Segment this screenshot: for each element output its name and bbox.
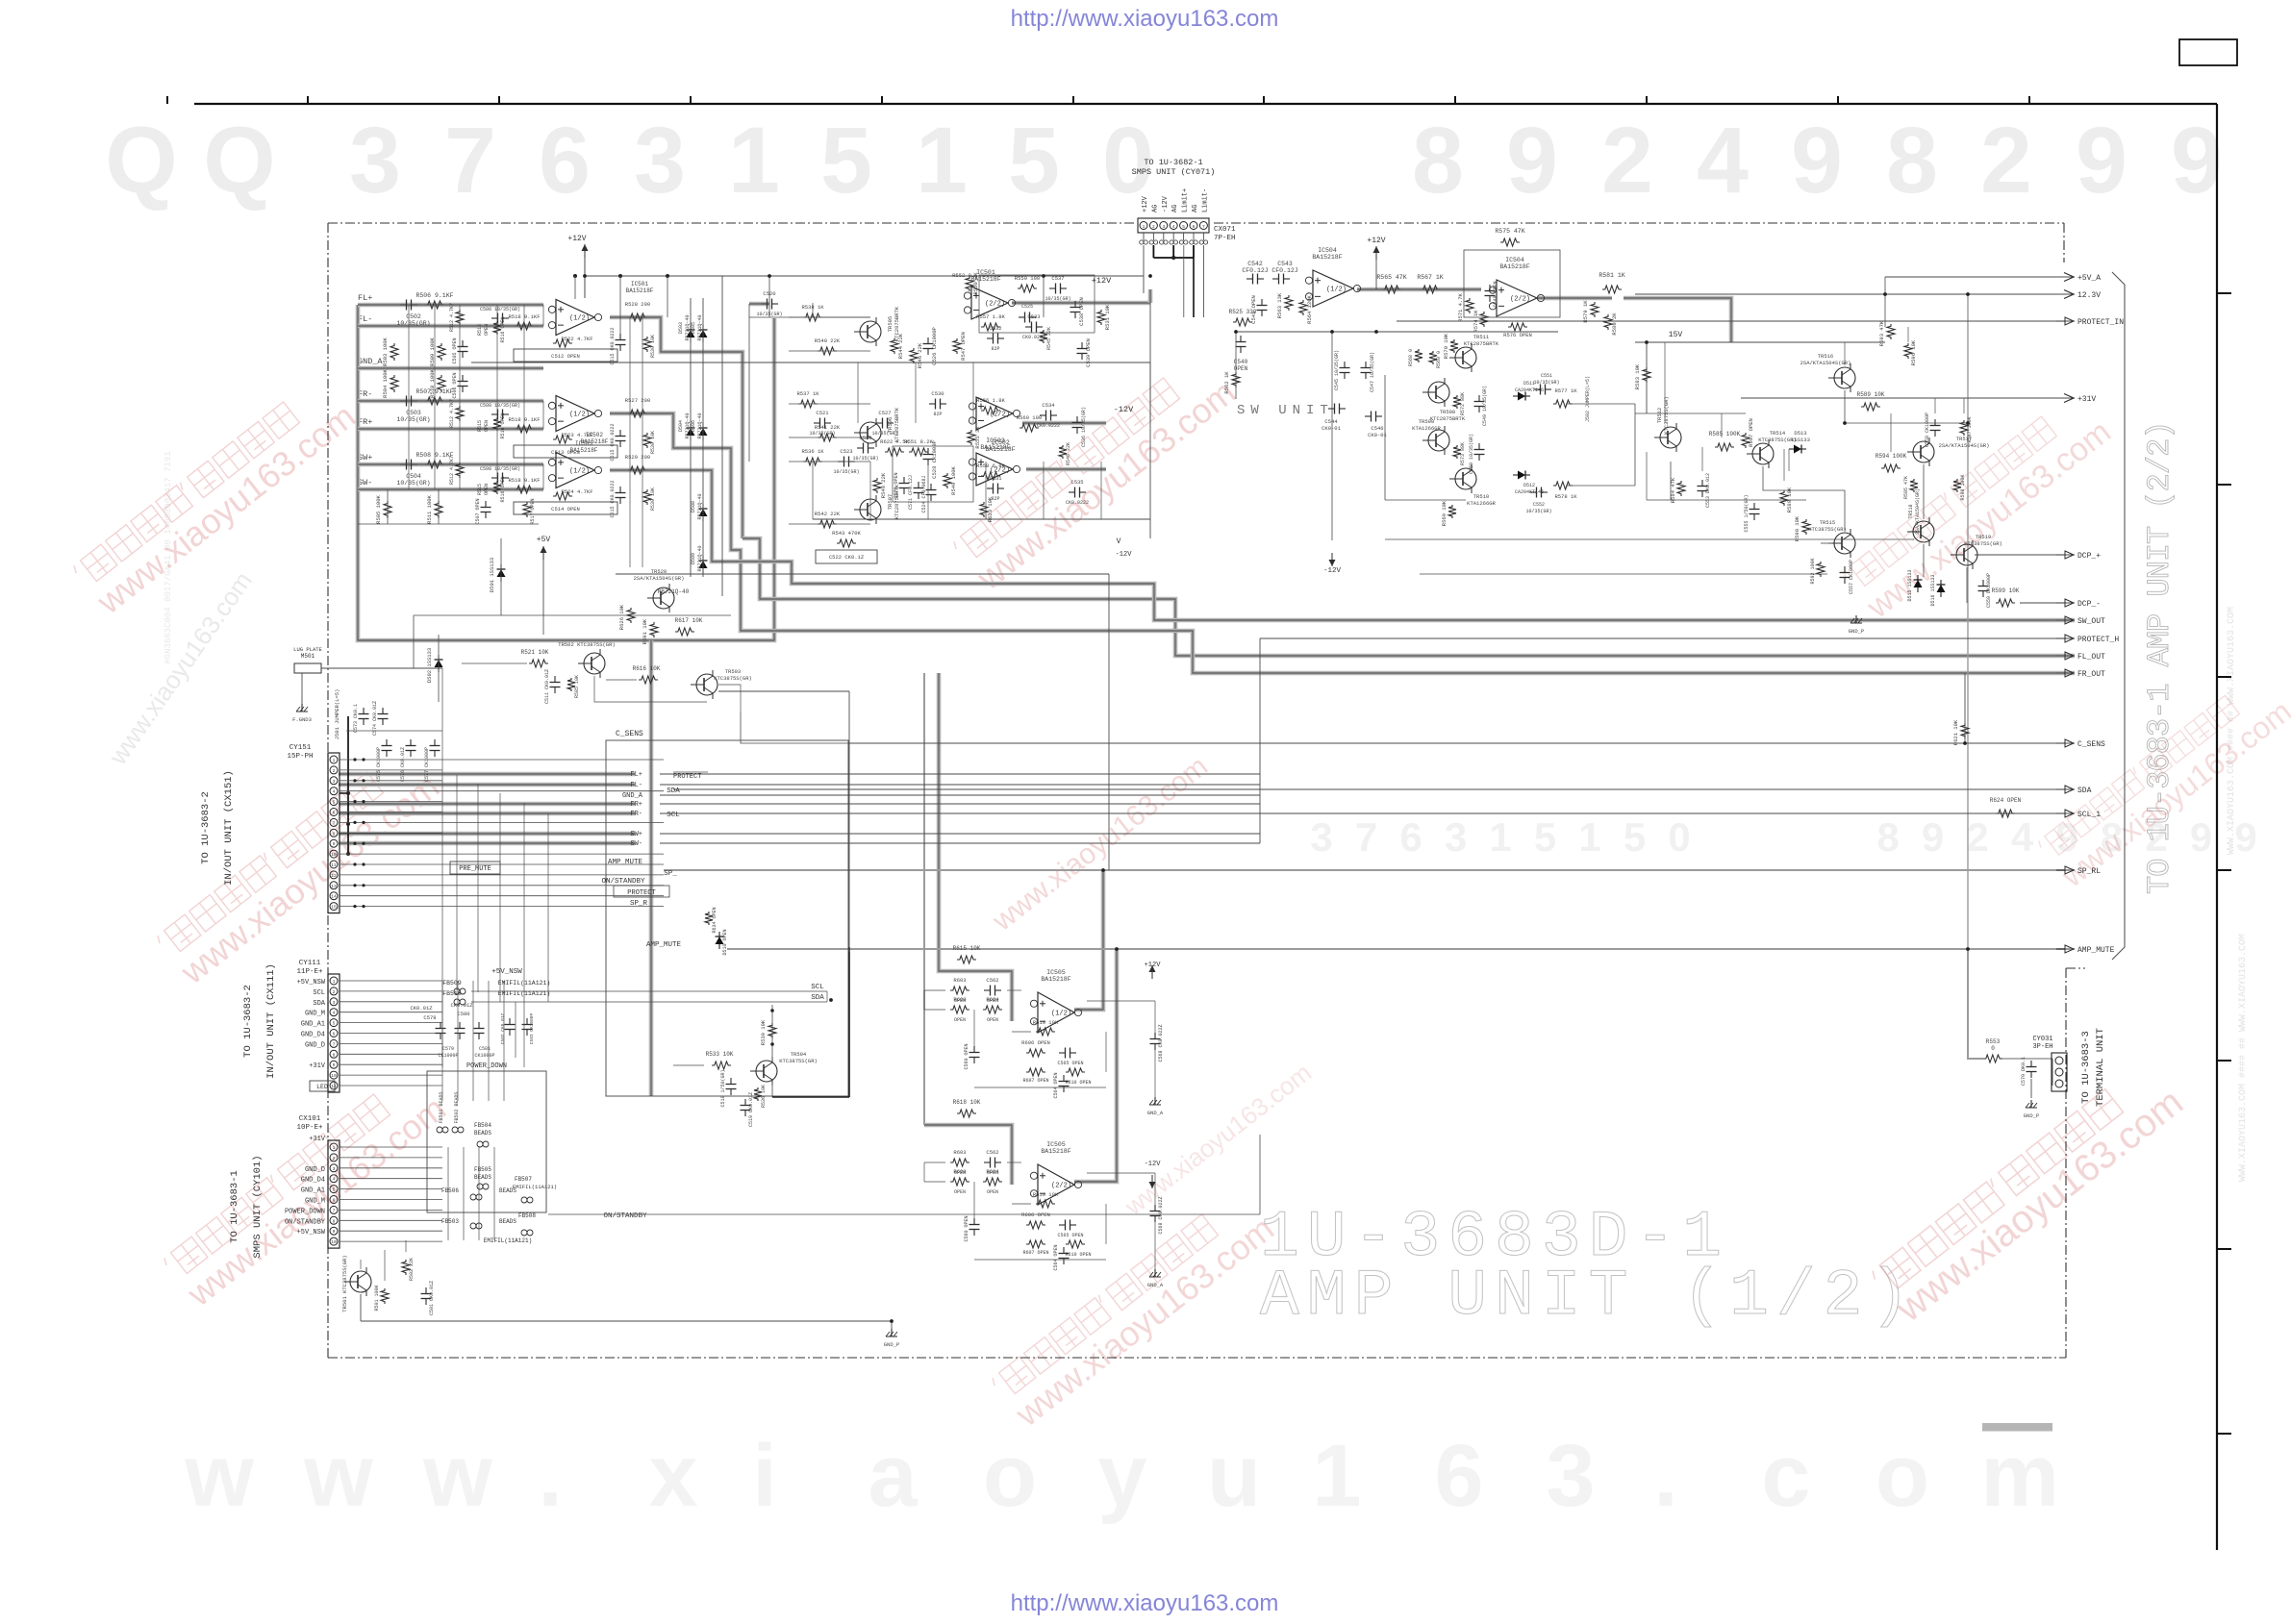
svg-text:TR504: TR504 [791, 1051, 807, 1058]
svg-text:POWER_DOWN: POWER_DOWN [466, 1062, 507, 1070]
svg-text:+5V: +5V [537, 536, 551, 544]
svg-text:C583 CK1000P: C583 CK1000P [529, 1012, 535, 1044]
svg-text:(1/2): (1/2) [569, 315, 590, 323]
svg-text:LED: LED [316, 1084, 328, 1090]
svg-text:11P-E+: 11P-E+ [296, 968, 323, 976]
svg-text:AG: AG [1171, 205, 1179, 212]
svg-text:D505: D505 [691, 322, 696, 334]
svg-text:ON/STANDBY: ON/STANDBY [285, 1218, 326, 1226]
svg-text:5: 5 [333, 1187, 336, 1193]
svg-text:o: o [1876, 1427, 1929, 1525]
svg-text:C545 10/35(GR): C545 10/35(GR) [1334, 350, 1340, 390]
svg-text:BEADS: BEADS [499, 1218, 516, 1225]
svg-text:CK0-01: CK0-01 [1322, 425, 1342, 432]
svg-text:KTC3875S(GR): KTC3875S(GR) [1964, 540, 2002, 547]
svg-text:TERMINAL UNIT: TERMINAL UNIT [2095, 1028, 2106, 1107]
svg-text:GND_P: GND_P [1849, 628, 1865, 635]
svg-text:7: 7 [444, 108, 496, 212]
svg-text:6: 6 [333, 1032, 336, 1037]
svg-text:C579: C579 [442, 1046, 454, 1052]
svg-text:C522 CK0.1Z: C522 CK0.1Z [829, 554, 865, 561]
svg-text:OPEN: OPEN [484, 324, 490, 336]
svg-text:R596 10K: R596 10K [1910, 339, 1917, 365]
svg-text:R573 88K: R573 88K [1460, 442, 1466, 465]
svg-text:M501: M501 [301, 653, 315, 660]
svg-text:R615 10K: R615 10K [953, 945, 981, 952]
svg-text:C515 CK0.0222: C515 CK0.0222 [610, 423, 616, 461]
svg-text:C535: C535 [1070, 479, 1083, 486]
svg-text:R544 22K: R544 22K [897, 333, 904, 359]
svg-text:C508 10/35(GR): C508 10/35(GR) [480, 307, 520, 312]
svg-text:BA15218F: BA15218F [1041, 976, 1070, 983]
svg-text:3: 3 [349, 108, 401, 212]
svg-text:C523: C523 [840, 448, 852, 455]
svg-text:WWW.XIAOYU163.COM #### ## WWW.: WWW.XIAOYU163.COM #### ## WWW.XIAOYU163.… [2238, 934, 2249, 1182]
svg-text:FB508: FB508 [518, 1212, 536, 1219]
svg-text:14: 14 [331, 894, 337, 900]
svg-text:4: 4 [1172, 224, 1175, 230]
svg-text:R541 22K: R541 22K [815, 424, 841, 431]
svg-text:3: 3 [333, 779, 336, 785]
svg-text:R560 100: R560 100 [1017, 414, 1042, 421]
svg-text:10/35(GR): 10/35(GR) [1533, 380, 1559, 386]
svg-text:R607 OPEN: R607 OPEN [1022, 1250, 1048, 1256]
svg-text:RB721Q-40: RB721Q-40 [697, 493, 703, 519]
svg-text:9: 9 [333, 841, 336, 847]
svg-text:SP_RL: SP_RL [2077, 867, 2101, 876]
svg-text:R523 4.7KF: R523 4.7KF [561, 432, 592, 438]
svg-text:FB506: FB506 [441, 1187, 459, 1194]
svg-text:R543 470K: R543 470K [832, 530, 861, 537]
svg-text:C570 DK0.1: C570 DK0.1 [2021, 1057, 2027, 1086]
svg-text:R621 10K: R621 10K [1952, 719, 1959, 745]
svg-text:2: 2 [1980, 108, 2032, 212]
svg-text:C580: C580 [457, 1011, 469, 1017]
svg-text:(1/2): (1/2) [569, 412, 590, 419]
svg-text:C568 CK0.022Z: C568 CK0.022Z [1158, 1196, 1164, 1234]
svg-text:http://www.xiaoyu163.com: http://www.xiaoyu163.com [1011, 6, 1279, 32]
svg-text:TR501 KTC3875S(GR): TR501 KTC3875S(GR) [341, 1255, 348, 1312]
svg-text:IC501: IC501 [631, 281, 648, 287]
svg-text:PROTECT: PROTECT [673, 773, 701, 781]
svg-text:R521 10K: R521 10K [521, 649, 549, 656]
svg-text:C574 CK0.01Z: C574 CK0.01Z [372, 701, 378, 736]
svg-text:Q: Q [203, 108, 275, 212]
svg-text:7: 7 [333, 820, 336, 826]
svg-text:FR_OUT: FR_OUT [2077, 670, 2105, 679]
svg-text:R533 10K: R533 10K [706, 1051, 734, 1058]
svg-text:w: w [422, 1427, 492, 1525]
svg-text:IC503: IC503 [986, 437, 1005, 444]
svg-text:C565 OPEN: C565 OPEN [1057, 1061, 1083, 1066]
svg-text:CK0.01Z: CK0.01Z [410, 1005, 433, 1012]
svg-text:C515 CK0.0222: C515 CK0.0222 [610, 480, 616, 517]
svg-text:CY111: CY111 [299, 960, 321, 967]
svg-text:12.3V: 12.3V [2077, 291, 2101, 300]
svg-text:FR-: FR- [630, 811, 642, 818]
svg-text:3: 3 [1310, 814, 1332, 860]
svg-text:R511 100K: R511 100K [426, 494, 433, 523]
svg-text:1: 1 [1489, 814, 1511, 860]
svg-text:3: 3 [634, 108, 686, 212]
svg-text:C527: C527 [878, 410, 891, 416]
svg-text:CY151: CY151 [290, 744, 312, 752]
svg-text:(2/2): (2/2) [985, 301, 1005, 309]
svg-text:R524 4.7KF: R524 4.7KF [561, 488, 592, 495]
svg-text:C503: C503 [406, 410, 421, 416]
svg-text:R528 200: R528 200 [625, 301, 650, 308]
svg-text:R578 1K: R578 1K [1554, 493, 1577, 500]
svg-text:9: 9 [2076, 108, 2127, 212]
svg-text:-12V: -12V [1114, 405, 1134, 414]
svg-text:R563 13K: R563 13K [1276, 292, 1283, 318]
svg-text:3: 3 [1546, 1427, 1595, 1525]
svg-text:SDA: SDA [667, 787, 680, 795]
svg-text:3: 3 [333, 1166, 336, 1172]
svg-text:R603: R603 [953, 1149, 966, 1156]
svg-text:TR516: TR516 [1818, 353, 1834, 360]
svg-text:GND_D: GND_D [305, 1041, 325, 1049]
svg-text:R599 10K: R599 10K [1992, 587, 2020, 594]
svg-text:R564 120K: R564 120K [1306, 294, 1313, 323]
svg-text:7: 7 [333, 1208, 336, 1213]
svg-text:R565 47K: R565 47K [1376, 274, 1406, 281]
svg-text:KTC3875S(GR): KTC3875S(GR) [779, 1058, 818, 1064]
svg-text:R574 1K: R574 1K [1473, 310, 1479, 333]
svg-text:TR511: TR511 [1473, 334, 1490, 340]
svg-text:R546 22K: R546 22K [1066, 442, 1071, 465]
svg-text:R575 47K: R575 47K [1495, 228, 1524, 235]
svg-text:7: 7 [333, 1041, 336, 1047]
svg-text:8: 8 [1412, 108, 1464, 212]
svg-text:TR519: TR519 [1976, 534, 1992, 540]
svg-text:R536 1K: R536 1K [801, 448, 824, 455]
svg-text:C553 DK0.012: C553 DK0.012 [1705, 473, 1711, 508]
svg-text:o: o [983, 1427, 1037, 1525]
svg-text:7: 7 [1355, 814, 1377, 860]
svg-text:w: w [303, 1427, 373, 1525]
svg-text:2: 2 [333, 768, 336, 774]
svg-text:R516 OPEN: R516 OPEN [500, 476, 506, 502]
svg-text:R626 10K: R626 10K [618, 604, 625, 630]
svg-text:SDA: SDA [313, 1000, 325, 1008]
svg-text:CF0.12J: CF0.12J [1271, 267, 1297, 274]
svg-text:9: 9 [2234, 814, 2256, 860]
svg-text:R595 47K: R595 47K [1903, 476, 1909, 499]
svg-text:C537: C537 [1051, 275, 1064, 282]
svg-text:DCP_+: DCP_+ [2077, 552, 2101, 561]
svg-text:5: 5 [333, 800, 336, 806]
svg-text:GND_M: GND_M [305, 1011, 325, 1018]
svg-text:11: 11 [331, 862, 337, 868]
svg-text:C560 OPEN: C560 OPEN [964, 1043, 969, 1069]
svg-text:R619 10K: R619 10K [1033, 1191, 1059, 1198]
svg-text:OPEN: OPEN [987, 1189, 998, 1195]
svg-text:FL+: FL+ [358, 293, 372, 303]
svg-text:.: . [538, 1427, 563, 1525]
svg-text:R589 10K: R589 10K [1857, 391, 1885, 398]
svg-text:C508 10/35(GR): C508 10/35(GR) [480, 466, 520, 472]
svg-text:R624 OPEN: R624 OPEN [1990, 797, 2022, 804]
svg-text:CX071: CX071 [1214, 226, 1236, 234]
svg-text:C519 CK0.01Z: C519 CK0.01Z [748, 1092, 754, 1127]
svg-text:+12V: +12V [1367, 237, 1385, 245]
svg-text:R583 10K: R583 10K [1634, 363, 1641, 389]
svg-text:C560 OPEN: C560 OPEN [964, 1215, 969, 1241]
svg-text:R606 OPEN: R606 OPEN [1021, 1039, 1050, 1046]
svg-text:TO 1U-3683-3: TO 1U-3683-3 [2080, 1031, 2092, 1104]
svg-text:SMPS UNIT (CY071): SMPS UNIT (CY071) [1132, 167, 1216, 177]
svg-text:(2/2): (2/2) [990, 467, 1010, 475]
svg-text:SW+: SW+ [630, 831, 642, 838]
svg-text:D506: D506 [691, 420, 696, 432]
svg-text:FB507: FB507 [515, 1176, 532, 1183]
svg-text:-12V: -12V [1145, 1161, 1162, 1168]
svg-text:IC503: IC503 [575, 440, 592, 447]
svg-text:2SA/KTA1504S(GR): 2SA/KTA1504S(GR) [1800, 360, 1851, 366]
svg-text:10P-E+: 10P-E+ [296, 1124, 323, 1132]
svg-text:R585 100K: R585 100K [1709, 431, 1741, 437]
svg-text:SP_: SP_ [664, 870, 677, 878]
svg-text:C508 10/35(GR): C508 10/35(GR) [480, 403, 520, 409]
svg-text:R570 10K: R570 10K [1443, 333, 1449, 359]
svg-text:9: 9 [1506, 108, 1558, 212]
svg-text:3P-EH: 3P-EH [2032, 1043, 2052, 1051]
svg-text:CF0.12J: CF0.12J [1242, 267, 1268, 274]
svg-text:R587 OPEN: R587 OPEN [1748, 418, 1754, 447]
svg-text:GND_A: GND_A [1147, 1110, 1164, 1116]
svg-text:R506 9.1KF: R506 9.1KF [415, 292, 453, 299]
svg-text:FB501 BEADS: FB501 BEADS [439, 1091, 444, 1123]
svg-text:FR+: FR+ [630, 801, 642, 809]
svg-text:2: 2 [1601, 108, 1653, 212]
svg-text:EMIFIL(11A121): EMIFIL(11A121) [484, 1237, 532, 1244]
svg-text:EMIFIL(11A121): EMIFIL(11A121) [513, 1184, 557, 1190]
svg-text:D516 1SS133: D516 1SS133 [1930, 574, 1936, 606]
svg-text:CA204KT146: CA204KT146 [1515, 387, 1544, 393]
svg-text:8: 8 [1886, 108, 1938, 212]
svg-text:R567 1K: R567 1K [1417, 274, 1443, 281]
svg-text:R571 4.7K: R571 4.7K [1457, 292, 1464, 321]
svg-text:CY031: CY031 [2032, 1036, 2052, 1043]
svg-text:FB510: FB510 [442, 990, 462, 997]
svg-text:R548 22K: R548 22K [880, 472, 887, 498]
svg-text:R598 100K: R598 100K [1960, 474, 1966, 500]
svg-text:FB509: FB509 [442, 980, 462, 987]
svg-text:C538 OPEN: C538 OPEN [1078, 297, 1085, 326]
svg-text:2SA/KTA1504S(GR): 2SA/KTA1504S(GR) [1939, 442, 1990, 449]
svg-text:R516 OPEN: R516 OPEN [500, 412, 506, 438]
svg-text:82P: 82P [933, 412, 942, 417]
svg-text:GND_M: GND_M [305, 1198, 325, 1206]
svg-text:4: 4 [333, 789, 336, 795]
svg-text:R617 10K: R617 10K [675, 617, 703, 624]
svg-text:R537 1K: R537 1K [796, 390, 819, 397]
svg-text:R556 1.8K: R556 1.8K [976, 397, 1005, 404]
svg-text:SDA: SDA [2077, 787, 2092, 795]
svg-text:SW_OUT: SW_OUT [2077, 617, 2105, 626]
svg-text:R616 10K: R616 10K [633, 665, 661, 672]
svg-text:AG: AG [1151, 205, 1159, 212]
svg-text:+12V: +12V [1142, 195, 1149, 212]
svg-text:SCL: SCL [667, 812, 680, 819]
svg-text:R504 100K: R504 100K [382, 368, 389, 397]
svg-text:(1/2): (1/2) [569, 468, 590, 476]
svg-text:GND_A1: GND_A1 [301, 1187, 325, 1195]
svg-text:R527 200: R527 200 [625, 397, 650, 404]
svg-text:8: 8 [333, 1218, 336, 1224]
svg-text:D508: D508 [691, 501, 696, 512]
svg-text:C514 OPEN: C514 OPEN [551, 506, 580, 512]
svg-text:R540 22K: R540 22K [815, 337, 841, 344]
svg-text:C536 10/35(GR): C536 10/35(GR) [1081, 407, 1087, 447]
svg-text:2: 2 [1152, 224, 1155, 230]
svg-text:R634 OPEN: R634 OPEN [712, 907, 718, 933]
svg-text:C564 OPEN: C564 OPEN [1053, 1244, 1059, 1270]
svg-text:15P-PH: 15P-PH [287, 753, 313, 761]
svg-text:1: 1 [333, 1145, 336, 1151]
svg-text:IC504: IC504 [1318, 247, 1337, 254]
svg-text:R603: R603 [953, 977, 966, 984]
svg-text:a: a [868, 1427, 918, 1525]
svg-text:CK1000P: CK1000P [474, 1053, 494, 1059]
svg-text:5: 5 [333, 1021, 336, 1027]
svg-text:C534: C534 [1042, 402, 1055, 409]
svg-text:+31V: +31V [309, 1062, 326, 1070]
svg-text:1: 1 [333, 979, 336, 985]
svg-text:RB721Q-40: RB721Q-40 [697, 412, 703, 438]
svg-text:i: i [752, 1427, 777, 1525]
svg-text:C550 10/35(GR): C550 10/35(GR) [1469, 434, 1474, 474]
svg-text:9: 9 [2190, 814, 2212, 860]
svg-text:GND_P: GND_P [2024, 1112, 2040, 1119]
svg-text:4: 4 [2011, 814, 2034, 860]
svg-text:R515: R515 [477, 484, 483, 495]
svg-text:GND_P: GND_P [884, 1341, 900, 1348]
svg-text:C506 OPEN: C506 OPEN [452, 372, 458, 398]
svg-text:1SS133: 1SS133 [1791, 437, 1810, 443]
svg-text:C_SENS: C_SENS [2077, 740, 2105, 749]
svg-text:D509: D509 [691, 553, 696, 564]
svg-text:CA204KT146: CA204KT146 [1515, 489, 1544, 495]
svg-text:R512 4.7K7: R512 4.7K7 [449, 399, 455, 428]
svg-text:Q: Q [105, 108, 177, 212]
svg-text:R525 330: R525 330 [1229, 309, 1257, 315]
svg-text:C512 OPEN: C512 OPEN [551, 353, 580, 360]
svg-text:3: 3 [333, 1000, 336, 1006]
svg-text:TR505: TR505 [887, 316, 894, 333]
svg-text:CK0-01: CK0-01 [1368, 432, 1388, 438]
svg-text:15: 15 [331, 905, 337, 911]
svg-text:FB502 BEADS: FB502 BEADS [454, 1091, 460, 1123]
svg-text:RB721Q-40: RB721Q-40 [697, 545, 703, 571]
svg-text:2: 2 [1966, 814, 1988, 860]
svg-text:10: 10 [331, 852, 337, 858]
svg-text:R577 1K: R577 1K [1554, 387, 1577, 394]
svg-text:R593 47K: R593 47K [1878, 320, 1885, 346]
svg-text:V: V [1117, 537, 1121, 546]
svg-text:FB505: FB505 [474, 1166, 491, 1173]
svg-text:CK1000P: CK1000P [438, 1053, 458, 1059]
svg-text:R530 10K: R530 10K [650, 487, 656, 511]
svg-text:Limit-: Limit- [1201, 188, 1209, 212]
svg-text:R618 10K: R618 10K [953, 1099, 981, 1106]
svg-text:m: m [1980, 1427, 2059, 1525]
svg-text:C551: C551 [1541, 373, 1552, 379]
svg-text:R591 10K: R591 10K [642, 618, 648, 644]
svg-text:R604: R604 [986, 996, 999, 1003]
svg-text:10/35(GR): 10/35(GR) [396, 480, 430, 487]
svg-text:SW-: SW- [630, 840, 642, 848]
svg-text:FB504: FB504 [474, 1122, 491, 1129]
svg-text:http://www.xiaoyu163.com: http://www.xiaoyu163.com [1011, 1590, 1279, 1616]
svg-text:R585 10K: R585 10K [574, 675, 580, 698]
svg-text:R600: R600 [953, 996, 966, 1003]
svg-text:OPEN: OPEN [484, 420, 490, 432]
svg-text:R505 100K: R505 100K [375, 494, 382, 523]
svg-text:5: 5 [1534, 814, 1556, 860]
svg-text:+5V_NSW: +5V_NSW [491, 968, 522, 976]
svg-text:SCL: SCL [811, 984, 824, 991]
svg-text:R530 10K: R530 10K [650, 335, 656, 358]
svg-text:C525: C525 [1021, 304, 1033, 310]
svg-text:R600: R600 [953, 1168, 966, 1175]
svg-text:C511 CK0.01Z: C511 CK0.01Z [544, 669, 550, 704]
svg-text:D502 1SS133: D502 1SS133 [426, 648, 433, 683]
svg-text:C505 OPEN: C505 OPEN [452, 337, 458, 363]
svg-text:5: 5 [820, 108, 872, 212]
svg-text:C524 CF0.068J: C524 CF0.068J [921, 475, 927, 512]
svg-text:9: 9 [2171, 108, 2223, 212]
svg-text:(2/2): (2/2) [1051, 1183, 1071, 1190]
svg-text:R581 1K: R581 1K [1599, 272, 1624, 279]
svg-text:OPEN: OPEN [954, 1189, 966, 1195]
svg-text:IC505: IC505 [1046, 969, 1066, 976]
svg-text:w: w [184, 1427, 254, 1525]
svg-text:J502 JUMPER(L=5): J502 JUMPER(L=5) [1585, 376, 1591, 422]
svg-text:u: u [1207, 1427, 1261, 1525]
svg-text:C548 OPEN: C548 OPEN [1493, 281, 1498, 307]
svg-text:C526 CK1000P: C526 CK1000P [931, 327, 938, 365]
svg-text:R539 10K: R539 10K [760, 1019, 767, 1045]
svg-text:R512 4.7K7: R512 4.7K7 [449, 456, 455, 485]
svg-text:6: 6 [333, 811, 336, 816]
svg-text:R610 OPEN: R610 OPEN [1065, 1080, 1091, 1086]
svg-text:9: 9 [1791, 108, 1843, 212]
svg-text:C578: C578 [423, 1014, 436, 1021]
svg-text:2: 2 [333, 1156, 336, 1162]
svg-text:R542 22K: R542 22K [815, 511, 841, 517]
svg-text:KTC2875BRTK: KTC2875BRTK [1464, 340, 1499, 347]
svg-text:15V: 15V [1669, 331, 1683, 339]
svg-text:R503 100K: R503 100K [382, 337, 389, 365]
svg-text:C501 CK0.01Z: C501 CK0.01Z [429, 1281, 435, 1315]
svg-text:R592 100K: R592 100K [1810, 558, 1816, 584]
svg-text:x: x [648, 1427, 697, 1525]
svg-text:4: 4 [1697, 108, 1749, 212]
svg-text:FL+: FL+ [630, 771, 642, 779]
svg-text:R546 22K: R546 22K [917, 342, 923, 368]
svg-text:D503: D503 [678, 322, 684, 334]
svg-text:C571 CF0.12J: C571 CF0.12J [908, 475, 914, 510]
svg-text:SW UNIT: SW UNIT [1237, 403, 1334, 418]
svg-text:BA15218F: BA15218F [1499, 263, 1529, 270]
svg-text:SCL: SCL [313, 989, 325, 997]
svg-text:1: 1 [1578, 814, 1600, 860]
svg-text:GND_D: GND_D [305, 1166, 325, 1174]
svg-text:RB721Q-40: RB721Q-40 [697, 314, 703, 340]
svg-text:R568 0: R568 0 [1408, 349, 1414, 366]
